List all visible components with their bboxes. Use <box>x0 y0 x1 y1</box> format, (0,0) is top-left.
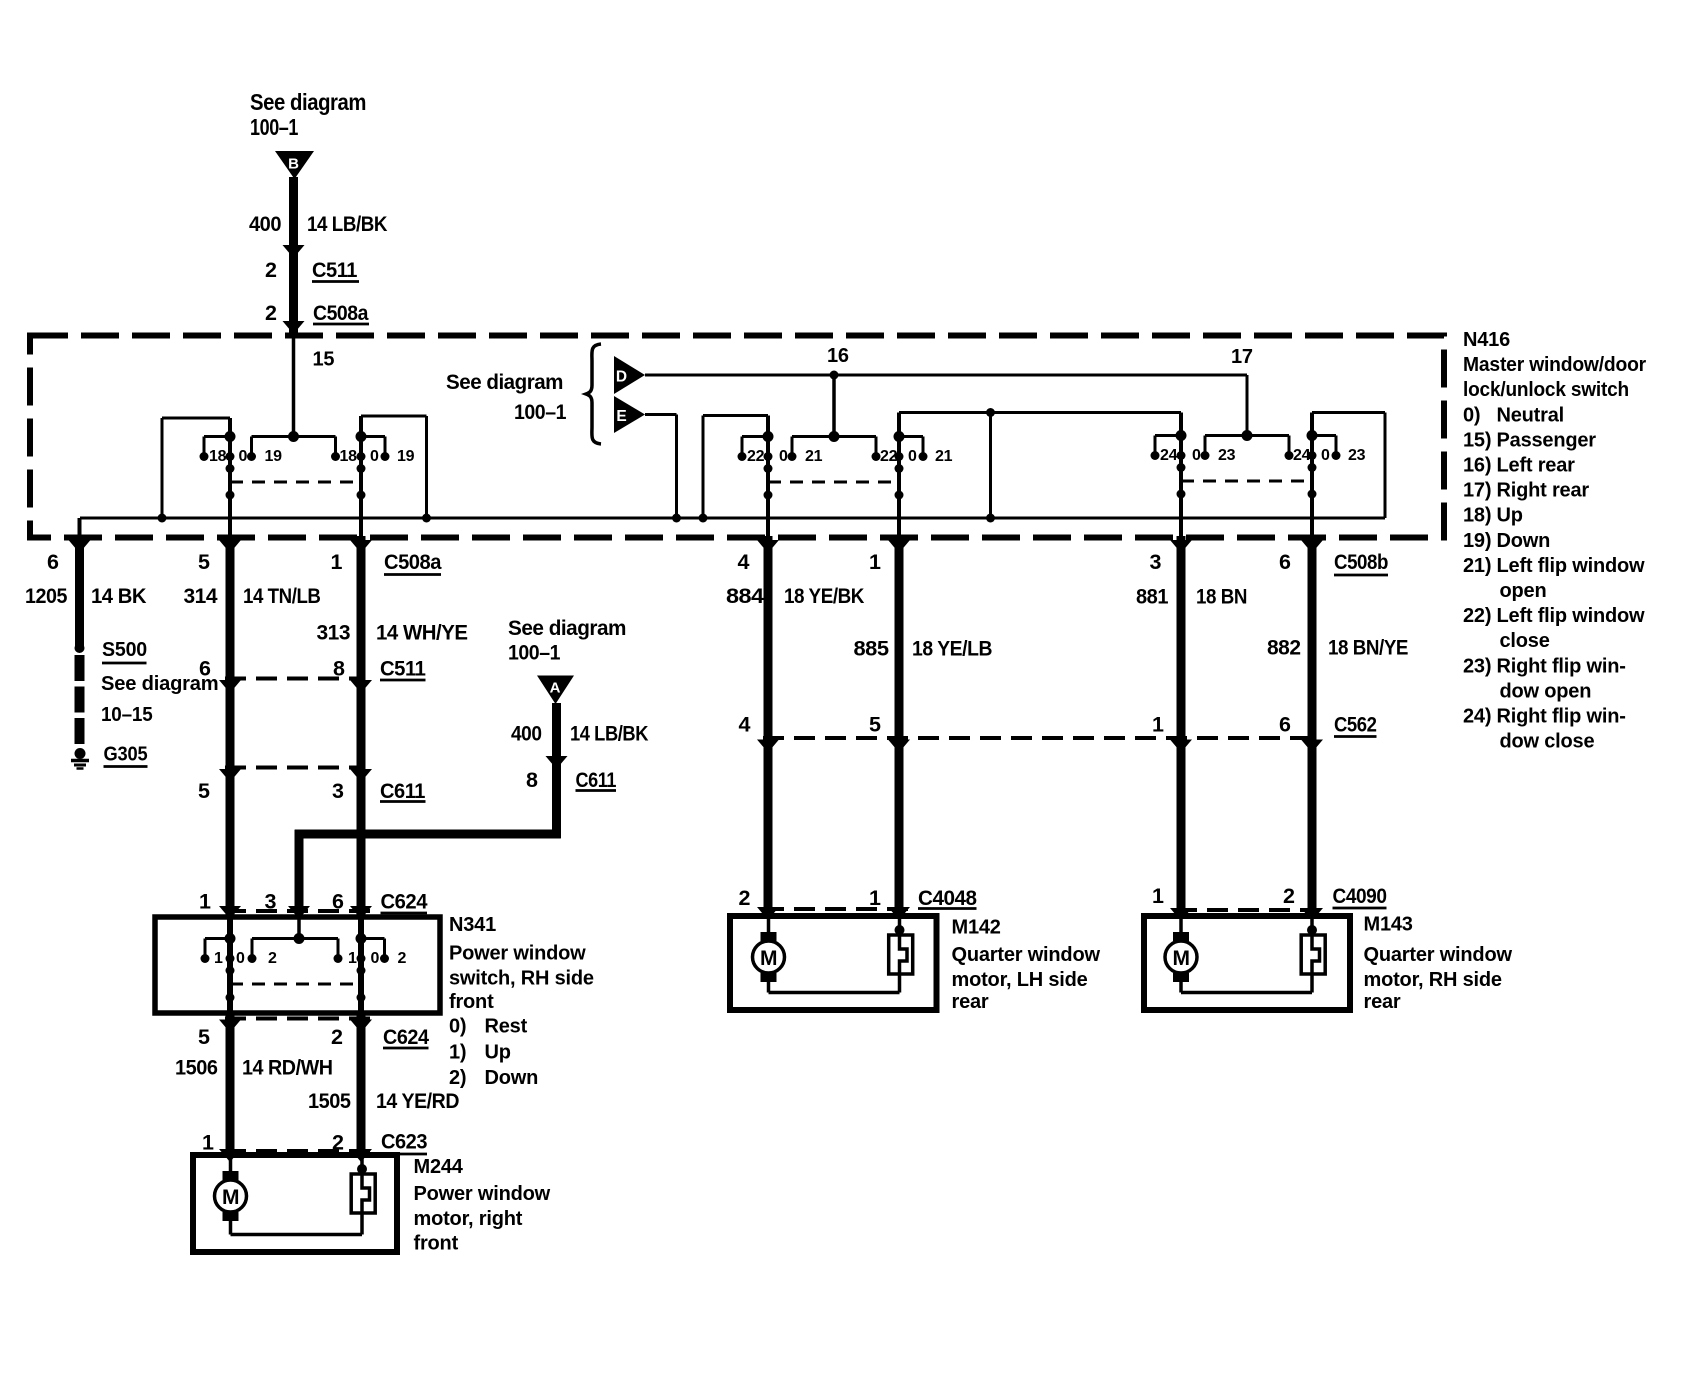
svg-text:C611: C611 <box>380 779 426 803</box>
svg-text:19): 19) <box>1463 530 1491 552</box>
svg-text:Power window: Power window <box>449 943 586 965</box>
svg-text:314: 314 <box>184 584 218 608</box>
svg-text:C624: C624 <box>383 1025 429 1049</box>
svg-text:1505: 1505 <box>308 1089 351 1113</box>
svg-text:Quarter window: Quarter window <box>1364 944 1513 966</box>
svg-text:3: 3 <box>332 779 344 803</box>
svg-text:1: 1 <box>202 1131 214 1155</box>
svg-text:18 BN: 18 BN <box>1196 585 1247 609</box>
svg-text:14 LB/BK: 14 LB/BK <box>570 722 649 746</box>
svg-text:15): 15) <box>1463 429 1491 451</box>
svg-text:0: 0 <box>371 950 380 967</box>
svg-text:E: E <box>616 408 626 425</box>
svg-text:C4048: C4048 <box>918 886 977 910</box>
svg-text:Right rear: Right rear <box>1497 480 1590 502</box>
svg-text:2: 2 <box>268 950 277 967</box>
svg-text:6: 6 <box>332 890 344 914</box>
svg-text:100–1: 100–1 <box>508 641 560 665</box>
svg-text:M: M <box>222 1186 239 1209</box>
svg-text:0: 0 <box>1192 447 1201 464</box>
svg-text:1: 1 <box>199 890 211 914</box>
svg-text:14 LB/BK: 14 LB/BK <box>307 212 388 236</box>
svg-text:1: 1 <box>1152 713 1164 737</box>
svg-text:Right flip win-: Right flip win- <box>1497 706 1626 728</box>
svg-text:M142: M142 <box>952 917 1001 939</box>
svg-text:C511: C511 <box>312 258 358 282</box>
svg-text:See diagram: See diagram <box>250 89 366 115</box>
svg-text:4: 4 <box>739 713 751 737</box>
svg-text:D: D <box>616 369 627 386</box>
svg-text:C4090: C4090 <box>1333 884 1387 908</box>
svg-text:open: open <box>1500 580 1547 602</box>
svg-text:Power window: Power window <box>414 1183 551 1205</box>
svg-text:front: front <box>414 1233 459 1255</box>
svg-text:6: 6 <box>47 550 59 574</box>
svg-text:18 YE/BK: 18 YE/BK <box>784 584 865 608</box>
svg-text:18): 18) <box>1463 505 1491 527</box>
svg-text:5: 5 <box>869 713 881 737</box>
svg-text:rear: rear <box>1364 991 1401 1013</box>
svg-text:882: 882 <box>1267 636 1301 660</box>
svg-text:884: 884 <box>726 584 764 608</box>
svg-text:C562: C562 <box>1334 713 1377 737</box>
svg-text:15: 15 <box>313 349 335 371</box>
svg-text:Quarter window: Quarter window <box>952 944 1101 966</box>
svg-text:22: 22 <box>880 448 898 465</box>
svg-text:6: 6 <box>199 657 211 681</box>
svg-text:6: 6 <box>1279 550 1291 574</box>
svg-text:18 YE/LB: 18 YE/LB <box>912 637 992 661</box>
svg-text:See diagram: See diagram <box>508 616 626 640</box>
svg-text:14 YE/RD: 14 YE/RD <box>376 1089 459 1113</box>
svg-text:close: close <box>1500 630 1550 652</box>
svg-text:1): 1) <box>449 1042 466 1064</box>
svg-text:17): 17) <box>1463 480 1491 502</box>
svg-text:2: 2 <box>265 301 277 325</box>
svg-text:23): 23) <box>1463 655 1491 677</box>
svg-text:C623: C623 <box>381 1130 427 1154</box>
svg-text:dow close: dow close <box>1500 731 1595 753</box>
svg-text:5: 5 <box>198 550 210 574</box>
svg-text:M143: M143 <box>1364 914 1413 936</box>
svg-text:100–1: 100–1 <box>514 401 567 424</box>
svg-text:21): 21) <box>1463 555 1491 577</box>
svg-text:100–1: 100–1 <box>250 114 299 140</box>
svg-text:8: 8 <box>526 768 538 792</box>
svg-text:C508a: C508a <box>384 550 442 574</box>
svg-text:0: 0 <box>236 950 245 967</box>
svg-text:14 RD/WH: 14 RD/WH <box>242 1056 333 1080</box>
svg-text:Left flip window: Left flip window <box>1497 605 1646 627</box>
svg-text:motor, LH side: motor, LH side <box>952 969 1088 991</box>
svg-text:1: 1 <box>869 886 881 910</box>
svg-text:front: front <box>449 991 494 1013</box>
svg-text:1: 1 <box>1152 884 1164 908</box>
svg-text:16): 16) <box>1463 455 1491 477</box>
svg-text:6: 6 <box>1279 713 1291 737</box>
svg-text:N341: N341 <box>449 914 496 936</box>
svg-text:2: 2 <box>331 1025 343 1049</box>
svg-text:23: 23 <box>1348 447 1366 464</box>
svg-text:14 TN/LB: 14 TN/LB <box>243 584 321 608</box>
svg-text:N416: N416 <box>1463 329 1510 351</box>
svg-text:C611: C611 <box>576 768 617 792</box>
svg-text:0: 0 <box>779 448 788 465</box>
svg-text:1: 1 <box>331 550 343 574</box>
svg-text:A: A <box>550 680 561 697</box>
svg-text:C624: C624 <box>381 890 428 914</box>
svg-text:3: 3 <box>1150 550 1162 574</box>
svg-text:0): 0) <box>1463 404 1480 426</box>
svg-text:Passenger: Passenger <box>1497 429 1597 451</box>
svg-text:24: 24 <box>1160 447 1178 464</box>
svg-text:Left rear: Left rear <box>1497 455 1576 477</box>
svg-text:1: 1 <box>214 950 223 967</box>
svg-text:0): 0) <box>449 1016 466 1038</box>
svg-text:Up: Up <box>1497 505 1523 527</box>
svg-text:Left flip window: Left flip window <box>1497 555 1646 577</box>
svg-text:motor, RH side: motor, RH side <box>1364 969 1502 991</box>
svg-text:lock/unlock switch: lock/unlock switch <box>1463 379 1629 401</box>
svg-text:2: 2 <box>398 950 407 967</box>
svg-text:19: 19 <box>397 448 415 465</box>
svg-text:Right flip win-: Right flip win- <box>1497 655 1626 677</box>
svg-text:19: 19 <box>265 448 283 465</box>
svg-text:22: 22 <box>747 448 765 465</box>
svg-text:switch, RH side: switch, RH side <box>449 968 594 990</box>
svg-text:G305: G305 <box>104 744 148 766</box>
svg-text:0: 0 <box>1321 447 1330 464</box>
svg-text:1: 1 <box>348 950 357 967</box>
svg-text:21: 21 <box>935 448 953 465</box>
svg-text:400: 400 <box>511 722 542 746</box>
svg-text:C508b: C508b <box>1334 550 1388 574</box>
svg-text:M244: M244 <box>414 1156 464 1178</box>
svg-text:rear: rear <box>952 991 989 1013</box>
svg-text:21: 21 <box>805 448 823 465</box>
svg-text:0: 0 <box>370 448 379 465</box>
svg-text:motor, right: motor, right <box>414 1208 523 1230</box>
svg-text:4: 4 <box>738 550 750 574</box>
svg-text:8: 8 <box>333 657 345 681</box>
svg-text:2: 2 <box>1283 884 1295 908</box>
svg-text:0: 0 <box>239 448 248 465</box>
svg-text:B: B <box>288 156 299 173</box>
svg-text:5: 5 <box>198 1025 210 1049</box>
svg-text:See diagram: See diagram <box>446 371 563 394</box>
svg-text:3: 3 <box>265 890 277 914</box>
svg-text:C508a: C508a <box>313 301 369 325</box>
svg-text:22): 22) <box>1463 605 1491 627</box>
svg-text:Down: Down <box>485 1067 539 1089</box>
svg-text:18 BN/YE: 18 BN/YE <box>1328 636 1408 660</box>
svg-text:5: 5 <box>198 779 210 803</box>
svg-text:313: 313 <box>317 621 351 645</box>
svg-text:Rest: Rest <box>485 1016 528 1038</box>
svg-text:24): 24) <box>1463 706 1491 728</box>
svg-text:18: 18 <box>340 448 358 465</box>
svg-text:2: 2 <box>332 1131 344 1155</box>
svg-text:Master window/door: Master window/door <box>1463 354 1646 376</box>
svg-text:Neutral: Neutral <box>1497 404 1565 426</box>
svg-text:17: 17 <box>1231 346 1253 368</box>
svg-text:1: 1 <box>869 550 881 574</box>
svg-text:dow open: dow open <box>1500 680 1592 702</box>
svg-text:M: M <box>760 947 777 970</box>
svg-text:14 WH/YE: 14 WH/YE <box>376 621 468 645</box>
svg-text:1205: 1205 <box>25 584 67 608</box>
svg-text:C511: C511 <box>380 657 426 681</box>
svg-text:Up: Up <box>485 1042 511 1064</box>
svg-text:24: 24 <box>1293 447 1311 464</box>
svg-text:0: 0 <box>908 448 917 465</box>
svg-text:885: 885 <box>854 637 890 661</box>
svg-text:Down: Down <box>1497 530 1551 552</box>
svg-text:16: 16 <box>827 345 849 367</box>
svg-text:2: 2 <box>739 886 751 910</box>
svg-text:1506: 1506 <box>175 1056 218 1080</box>
svg-text:2: 2 <box>265 258 277 282</box>
svg-text:23: 23 <box>1218 447 1236 464</box>
svg-text:2): 2) <box>449 1067 466 1089</box>
svg-text:10–15: 10–15 <box>101 704 153 726</box>
svg-text:14 BK: 14 BK <box>91 584 147 608</box>
svg-text:18: 18 <box>209 448 227 465</box>
svg-text:400: 400 <box>249 212 282 236</box>
svg-text:881: 881 <box>1136 585 1169 609</box>
svg-text:S500: S500 <box>102 639 147 661</box>
svg-text:M: M <box>1173 947 1190 970</box>
